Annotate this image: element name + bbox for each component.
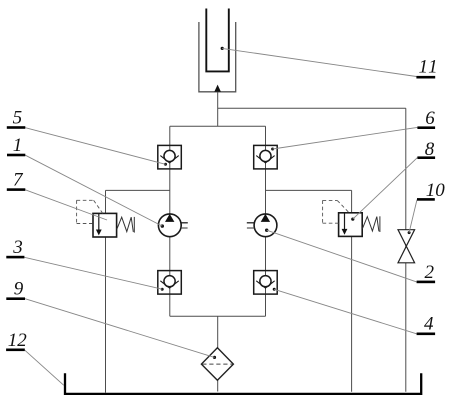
pump 2 (right pump/motor circle): [247, 214, 277, 237]
wire: manifold rectangle top edge: [170, 125, 266, 127]
cylinder 11 body (outer barrel, open top): [199, 22, 236, 92]
check valve 3 (bottom-left square): [158, 271, 182, 295]
leader line to label 4: [274, 289, 416, 334]
tank 12 (open-top reservoir): [65, 373, 421, 394]
relief valve 8 pilot line (dashed): [323, 200, 350, 223]
leader line to label 6: [273, 127, 418, 149]
wire: manifold rectangle bottom edge: [170, 315, 266, 317]
label 3: [6, 237, 24, 258]
svg-text:5: 5: [13, 107, 23, 128]
svg-text:9: 9: [14, 279, 24, 300]
relief valve 7 pilot line (dashed): [77, 200, 103, 223]
cylinder 11 plunger (inner U): [206, 9, 229, 72]
wire: right branch to relief valve 8: [266, 189, 352, 191]
leader line to label 3: [24, 257, 162, 289]
wire: branch from cylinder line right to valve 10 column: [218, 107, 406, 109]
label 7: [7, 170, 26, 191]
leader line to label 11: [222, 48, 416, 76]
svg-text:11: 11: [419, 57, 440, 78]
wire: left branch to relief valve 7: [106, 189, 170, 191]
wire: right outer column down through valve 10 to tank: [405, 108, 407, 392]
label 9: [6, 279, 25, 300]
leader line to label 7: [25, 190, 107, 220]
label 1: [7, 135, 25, 156]
relief valve 8 (right, square with down arrow): [339, 213, 363, 237]
label 5: [7, 107, 26, 128]
svg-text:12: 12: [8, 330, 28, 351]
wire: manifold bottom center line to filter 9: [217, 316, 219, 391]
label 4: [417, 314, 436, 336]
leader line to label 9: [25, 299, 215, 358]
svg-text:7: 7: [13, 170, 24, 191]
svg-text:3: 3: [12, 237, 22, 258]
valve 10 (throttle, bowtie symbol): [398, 230, 415, 263]
svg-text:10: 10: [426, 180, 446, 201]
wire: manifold right vertical line: [265, 126, 267, 316]
leader line to label 2: [267, 230, 417, 282]
check valve 6 (top-right square): [254, 145, 278, 169]
leader line to label 1: [25, 155, 162, 226]
label 11: [416, 57, 439, 79]
leader line to label 10: [409, 200, 417, 233]
svg-text:2: 2: [425, 262, 435, 283]
label 12: [6, 330, 27, 351]
filter 9 (diamond with dashed element): [201, 348, 233, 381]
cylinder 11 reference dot: [221, 47, 224, 50]
relief valve 8 spring: [362, 216, 380, 232]
check valve 4 (bottom-right square): [254, 271, 278, 295]
relief valve 7 (left, square with down arrow): [93, 213, 117, 237]
wire: relief valve 8 column down to tank: [351, 190, 353, 391]
check valve 5 (top-left square): [158, 145, 182, 169]
svg-text:6: 6: [425, 108, 435, 129]
wire: manifold left vertical line: [169, 126, 171, 316]
label 2: [417, 262, 436, 283]
pump 1 (left pump/motor circle): [158, 214, 187, 237]
label 10: [417, 180, 445, 201]
wire: relief valve 7 column down to tank: [105, 190, 107, 392]
label 6: [417, 108, 435, 129]
svg-text:4: 4: [424, 314, 434, 335]
leader line to label 5: [25, 128, 165, 165]
relief valve 7 spring: [117, 217, 135, 233]
wire: cylinder rod line down to manifold top: [217, 92, 219, 126]
leader line to label 12: [25, 350, 64, 385]
label 8: [417, 139, 435, 160]
leader line to label 8: [353, 158, 418, 220]
svg-text:1: 1: [13, 135, 22, 156]
cylinder 11 inlet flow arrow: [214, 85, 221, 92]
